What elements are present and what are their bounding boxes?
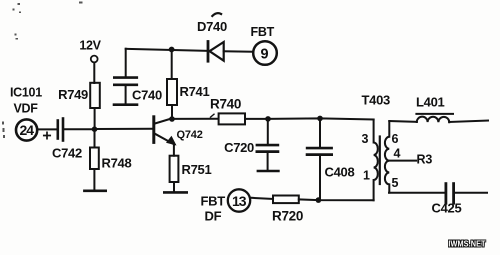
T403 primary winding	[374, 120, 378, 201]
svg-text:L401: L401	[416, 95, 445, 110]
capacitor C742	[56, 121, 59, 139]
resistor R740	[219, 113, 245, 124]
wire R720 to T403 primary bottom	[299, 198, 374, 201]
wire 12V to R749	[93, 63, 95, 83]
svg-text:IC101: IC101	[10, 86, 42, 100]
svg-text:IWMS.NET: IWMS.NET	[448, 239, 485, 249]
wire base node to Q742 base	[95, 128, 153, 130]
svg-text:VDF: VDF	[14, 102, 39, 116]
wire R749 to node	[94, 108, 96, 129]
svg-text:C740: C740	[132, 88, 162, 103]
wire C425 to right edge	[455, 192, 487, 194]
wire node to R748	[94, 129, 96, 147]
svg-text:12V: 12V	[79, 39, 101, 53]
svg-text:C742: C742	[52, 146, 82, 161]
wire R741 to collector node	[171, 105, 173, 119]
wire R740 to T403 primary top	[245, 118, 374, 119]
wire R748 to ground	[93, 169, 95, 191]
svg-text:R749: R749	[58, 87, 88, 102]
wire L401 to right edge	[449, 121, 488, 123]
node C720	[265, 116, 271, 122]
capacitor C425	[444, 184, 447, 204]
svg-text:24: 24	[20, 122, 35, 138]
svg-text:R740: R740	[210, 97, 241, 112]
node C408 top	[317, 116, 323, 122]
wire C742 to base node	[65, 128, 95, 130]
resistor R749	[90, 83, 100, 108]
svg-text:C408: C408	[325, 165, 355, 180]
node collector	[169, 116, 175, 122]
node C408 bottom	[316, 197, 322, 203]
wire 24 to C742	[38, 128, 56, 130]
scan speck artifacts	[2, 2, 83, 139]
T403 secondary winding	[385, 121, 389, 193]
transistor Q742	[152, 117, 155, 143]
ground	[84, 190, 105, 193]
resistor R751	[170, 156, 179, 182]
pin terminal 24	[16, 119, 37, 140]
wire collector node to R740	[172, 118, 219, 120]
wire 13 to R720	[251, 198, 273, 199]
wire diode to FBT 9	[224, 50, 253, 52]
svg-text:3: 3	[362, 132, 369, 146]
svg-text:D740: D740	[197, 19, 227, 34]
FBT pin terminal 13	[228, 189, 250, 211]
svg-text:DF: DF	[205, 209, 222, 224]
resistor R748	[90, 148, 99, 170]
capacitor C720	[267, 119, 269, 145]
svg-text:R748: R748	[102, 156, 132, 171]
svg-text:R751: R751	[182, 162, 212, 177]
svg-text:FBT: FBT	[251, 25, 275, 39]
svg-text:Q742: Q742	[177, 129, 203, 141]
center tap wire to R3	[389, 160, 417, 162]
svg-text:9: 9	[261, 46, 269, 62]
ground	[164, 191, 186, 194]
capacitor C408	[319, 118, 321, 147]
resistor R741	[167, 79, 177, 105]
watermark IWMS.NET	[448, 238, 487, 250]
svg-text:6: 6	[392, 132, 399, 146]
top rail wire	[126, 49, 208, 51]
node base junction	[92, 126, 98, 132]
wire tick artifact	[211, 114, 215, 117]
ground	[258, 170, 279, 173]
svg-text:4: 4	[394, 147, 401, 161]
wire node to R741	[171, 50, 173, 80]
capacitor C740	[125, 49, 127, 78]
wire R751 to ground	[173, 182, 175, 192]
svg-text:1: 1	[363, 169, 370, 183]
svg-text:R720: R720	[272, 209, 303, 224]
svg-text:5: 5	[392, 176, 399, 190]
svg-text:13: 13	[232, 193, 247, 209]
T403 core	[379, 137, 381, 185]
FBT pin terminal 9	[253, 41, 277, 65]
ground	[114, 103, 137, 106]
node top rail / R741	[169, 47, 175, 53]
svg-text:C425: C425	[432, 201, 462, 216]
svg-text:R3: R3	[417, 153, 433, 167]
secondary bottom rail	[389, 192, 445, 194]
svg-text:FBT: FBT	[201, 194, 226, 209]
svg-text:T403: T403	[362, 93, 391, 108]
svg-text:R741: R741	[180, 84, 210, 99]
secondary top rail	[389, 120, 417, 123]
svg-text:C720: C720	[224, 140, 254, 155]
resistor R720	[273, 196, 299, 204]
wire emitter to R751	[173, 145, 175, 156]
